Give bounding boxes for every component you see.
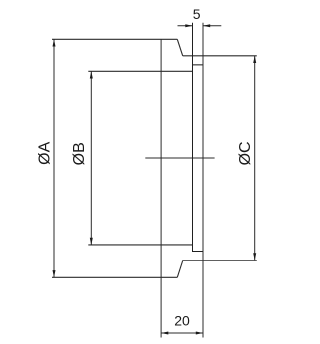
arrow dimA top xyxy=(53,39,56,46)
arrow dimB top xyxy=(90,71,93,78)
arrow dimC top xyxy=(253,56,256,63)
diameter-C dimension line xyxy=(254,56,256,261)
bore bottom edge + diameter-B bottom extension xyxy=(88,244,192,246)
neck top edge + diameter-C top extension xyxy=(183,55,257,57)
bore top edge + diameter-B top extension xyxy=(88,70,192,72)
5-dim left tail xyxy=(178,25,193,27)
svg-text:20: 20 xyxy=(174,313,190,329)
arrow 20-dim right xyxy=(196,332,203,335)
bottom chamfer xyxy=(177,261,182,278)
svg-text:5: 5 xyxy=(193,6,201,22)
svg-text:ØA: ØA xyxy=(36,141,53,164)
arrow dimC bottom xyxy=(253,253,256,260)
bore depth line A xyxy=(192,23,194,252)
arrow 5-dim left xyxy=(185,24,192,27)
groove top edge xyxy=(193,64,204,66)
svg-text:ØC: ØC xyxy=(237,141,254,165)
body right face line B + 5-dim and 20-dim right extension xyxy=(202,23,204,338)
20-dim line xyxy=(161,332,203,334)
arrow 20-dim left xyxy=(161,332,168,335)
diameter-A dimension line xyxy=(53,39,55,277)
body left face + 20-dim left extension xyxy=(160,39,162,337)
groove bottom edge xyxy=(193,251,204,253)
arrow 5-dim right xyxy=(203,24,210,27)
arrow dimA bottom xyxy=(53,270,56,277)
svg-text:ØB: ØB xyxy=(71,142,88,165)
diameter-B dimension line xyxy=(90,71,92,245)
arrow dimB bottom xyxy=(90,238,93,245)
body bottom edge + diameter-A bottom extension xyxy=(52,276,177,278)
centerline xyxy=(145,157,214,159)
5-dim right tail xyxy=(203,25,221,27)
neck bottom edge + diameter-C bottom extension xyxy=(183,260,257,262)
body top edge + diameter-A top extension xyxy=(52,38,177,40)
top chamfer xyxy=(177,39,182,56)
